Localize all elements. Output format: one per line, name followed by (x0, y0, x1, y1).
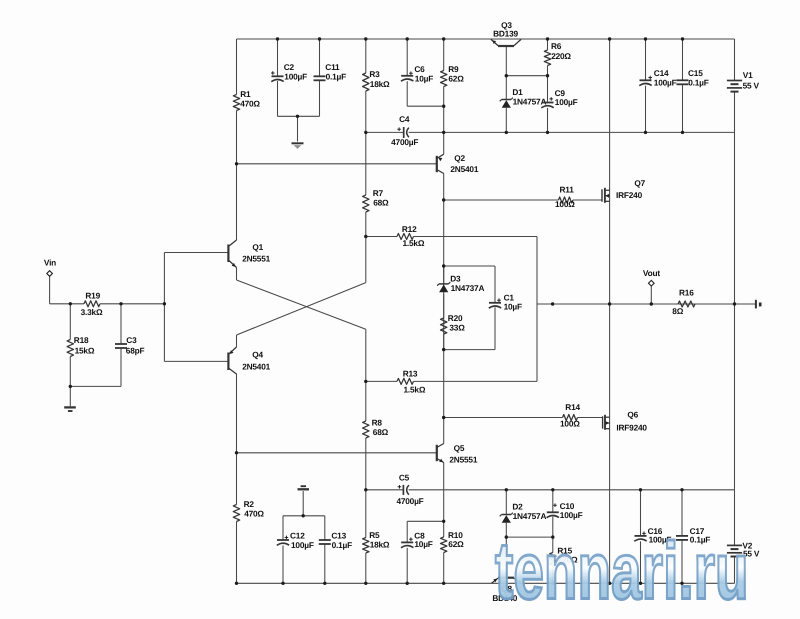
ground C12/C13 (298, 486, 310, 489)
svg-text:100µF: 100µF (560, 510, 583, 520)
svg-text:BD139: BD139 (493, 29, 518, 39)
svg-text:C11: C11 (325, 62, 340, 72)
capacitor C1 (489, 292, 522, 311)
wire R9 leads (443, 39, 445, 132)
wire Q5 emitter to R10 (443, 463, 445, 584)
wire D3 to R20 (443, 266, 445, 350)
svg-text:100µF: 100µF (654, 78, 677, 88)
junction C6/R9 link (442, 105, 445, 108)
wire V1 leads (734, 39, 736, 132)
resistor R7 (363, 188, 389, 212)
junction dots +55V rail (276, 37, 684, 40)
resistor R15 (550, 546, 578, 568)
svg-text:V1: V1 (743, 70, 753, 80)
svg-text:D1: D1 (512, 87, 523, 97)
transistor Q8 BD140 (492, 578, 522, 603)
svg-text:Vin: Vin (44, 257, 56, 267)
capacitor C9 (541, 88, 577, 108)
svg-text:Q5: Q5 (454, 443, 465, 453)
svg-text:100µF: 100µF (284, 72, 307, 82)
junction D2/C10 link (505, 535, 555, 538)
capacitor C11 (314, 62, 347, 82)
capacitor C8 (401, 531, 433, 550)
wire R18 bottom to ground (69, 357, 71, 407)
watermark tennari.ru (495, 524, 749, 618)
wire D3/C1 block top (444, 266, 495, 303)
svg-text:R13: R13 (403, 369, 418, 379)
wire D1 to C9 link (506, 75, 547, 77)
svg-text:4700µF: 4700µF (396, 496, 423, 506)
wire MOSFET column (609, 39, 611, 583)
battery V2 55V (727, 540, 760, 558)
terminal Vout (643, 268, 660, 286)
wire C8 leads (406, 521, 408, 583)
wire C6 to R9 link (407, 105, 444, 107)
wire D2 to C10 link (506, 536, 553, 538)
wire R14 gate drive (444, 417, 603, 419)
svg-text:Q7: Q7 (634, 178, 645, 188)
wire C13 leads (324, 516, 326, 584)
junction R11 tap (442, 198, 445, 201)
junction R12 tap (364, 235, 367, 238)
svg-text:100µF: 100µF (555, 97, 578, 107)
svg-text:R2: R2 (244, 499, 255, 509)
wire mid rail lower (C5 to V2) (366, 489, 735, 491)
wire C15 leads (682, 39, 684, 132)
junction dots output rail (551, 302, 736, 305)
mosfet Q7 IRF240 (602, 178, 646, 203)
resistor R8 (363, 418, 389, 439)
junction D3 block bottom (442, 348, 445, 351)
svg-text:C2: C2 (284, 62, 295, 72)
svg-text:0.1µF: 0.1µF (326, 72, 347, 82)
junction D3 block top (442, 264, 445, 267)
transistor Q2 2N5401 (437, 153, 479, 174)
junction C2/C11 ground tap (296, 115, 299, 118)
wire D2 leads (505, 490, 507, 537)
resistor R9 (441, 64, 465, 87)
node feedback vertical (536, 237, 538, 382)
wire Vin to R19 (50, 276, 84, 304)
wire Q2 emitter stem (443, 132, 445, 154)
resistor R12 (397, 224, 425, 248)
mosfet Q6 IRF9240 (603, 410, 648, 433)
svg-text:18kΩ: 18kΩ (370, 540, 390, 550)
wire Q8 base stem (505, 537, 507, 578)
wire Q4 emitter stem (236, 345, 238, 347)
svg-text:C14: C14 (654, 68, 669, 78)
wire C2 leads (277, 39, 279, 116)
svg-text:15kΩ: 15kΩ (75, 346, 95, 356)
resistor R5 (363, 530, 390, 553)
zener diode D3 1N4737A (437, 274, 484, 294)
junction R13 tap (364, 380, 367, 383)
zener diode D2 1N4757A (500, 502, 547, 523)
svg-text:2N5551: 2N5551 (449, 455, 477, 465)
wire -55V bottom rail (237, 582, 735, 584)
svg-text:Q4: Q4 (252, 350, 263, 360)
svg-text:0.1µF: 0.1µF (688, 78, 709, 88)
resistor R1 (233, 89, 260, 111)
junction R18 ground tap (69, 385, 72, 388)
svg-text:2N5401: 2N5401 (242, 361, 270, 371)
junction Q2 base wire (235, 162, 238, 165)
wire C14 leads (645, 39, 647, 132)
capacitor C12 (277, 531, 314, 551)
resistor R10 (441, 530, 465, 553)
svg-text:R16: R16 (679, 288, 694, 298)
svg-text:R9: R9 (448, 64, 459, 74)
svg-text:10µF: 10µF (504, 302, 522, 312)
svg-text:2N5401: 2N5401 (450, 164, 478, 174)
wire C3 leads (120, 304, 122, 387)
wire C16 leads (640, 490, 642, 584)
resistor R18 (67, 335, 95, 357)
svg-text:Q2: Q2 (454, 153, 465, 163)
wire ladder lower (R8-R5) (365, 381, 367, 583)
wire C8 to R10 link (407, 520, 444, 522)
wire C12 leads (282, 516, 284, 584)
wire Vout stem (650, 286, 652, 304)
wire R19 to node input (100, 303, 164, 305)
svg-text:IRF240: IRF240 (616, 190, 643, 200)
svg-text:1N4737A: 1N4737A (451, 283, 485, 293)
wire left rail upper (R1/Q1 collector) (236, 39, 238, 240)
svg-text:68Ω: 68Ω (373, 198, 389, 208)
wire C2/C11 ground link (278, 116, 320, 141)
transistor Q4 2N5401 (228, 347, 270, 374)
node input bias vertical (163, 253, 165, 362)
wire Q5 base (237, 452, 437, 454)
wire VAS column (Q2 collector to Q5 collector) (443, 174, 445, 444)
svg-text:Vout: Vout (643, 268, 660, 278)
resistor R14 (560, 402, 581, 429)
resistor R20 (441, 313, 466, 334)
svg-text:D2: D2 (512, 502, 523, 512)
wire R12 to feedback loop (366, 236, 537, 238)
svg-text:1.5kΩ: 1.5kΩ (404, 385, 426, 395)
svg-text:R12: R12 (402, 224, 417, 234)
svg-text:100µF: 100µF (291, 540, 314, 550)
wire ladder to Q4 diagonal (237, 237, 366, 346)
svg-text:C12: C12 (290, 531, 305, 541)
svg-text:R1: R1 (240, 89, 251, 99)
svg-text:1.5kΩ: 1.5kΩ (403, 238, 425, 248)
wire R18/C3 bottom link (70, 385, 121, 387)
resistor R19 (81, 291, 103, 317)
svg-text:33Ω: 33Ω (449, 323, 465, 333)
zener diode D1 1N4757A (500, 87, 547, 108)
svg-text:10µF: 10µF (414, 539, 432, 549)
wire left rail lower (Q4 collector/R2) (236, 374, 238, 583)
terminal Vin (44, 257, 56, 276)
junction D1/C9 link (505, 74, 550, 77)
junction dots bottom rail (235, 582, 684, 585)
capacitor C2 (271, 62, 307, 82)
capacitor C14 (639, 68, 676, 88)
svg-text:IRF9240: IRF9240 (616, 422, 647, 432)
capacitor C17 (676, 526, 710, 545)
wire D1 leads (505, 76, 507, 133)
transistor Q3 BD139 (491, 20, 521, 46)
resistor R3 (363, 69, 390, 91)
svg-text:1N4757A: 1N4757A (513, 97, 547, 107)
svg-text:R6: R6 (551, 41, 562, 51)
svg-text:62Ω: 62Ω (448, 74, 464, 84)
capacitor C3 (115, 335, 144, 356)
svg-text:R20: R20 (448, 313, 463, 323)
svg-text:1N4757A: 1N4757A (513, 511, 547, 521)
svg-text:100Ω: 100Ω (555, 199, 575, 209)
svg-text:R18: R18 (74, 335, 89, 345)
wire Q4 base (164, 360, 228, 362)
resistor R6 (544, 41, 571, 66)
junction dots input wire (69, 302, 166, 305)
ground C2/C11 (292, 143, 304, 149)
wire R18 top lead (69, 304, 71, 340)
wire R15 leads (552, 537, 554, 583)
wire C9 leads (547, 76, 549, 133)
svg-text:2N5551: 2N5551 (242, 254, 270, 264)
svg-text:100Ω: 100Ω (560, 419, 580, 429)
svg-text:R14: R14 (565, 402, 580, 412)
junction Q5 base wire (235, 451, 238, 454)
svg-text:R5: R5 (369, 530, 380, 540)
capacitor C10 (547, 501, 583, 520)
svg-text:0.1µF: 0.1µF (332, 540, 353, 550)
resistor R16 (672, 288, 695, 316)
wire Q1 base (164, 252, 228, 254)
svg-text:R8: R8 (372, 418, 383, 428)
svg-text:68pF: 68pF (126, 346, 145, 356)
junction C8/R10 link (442, 520, 445, 523)
wire C11 leads (319, 39, 321, 116)
wire R6 leads (547, 39, 549, 76)
svg-text:D3: D3 (450, 274, 461, 284)
svg-text:470Ω: 470Ω (240, 99, 260, 109)
resistor R11 (555, 185, 575, 210)
svg-text:10µF: 10µF (415, 74, 433, 84)
junction dots mid rail upper (364, 131, 684, 134)
svg-text:220Ω: 220Ω (551, 51, 571, 61)
svg-text:C6: C6 (414, 64, 425, 74)
resistor R13 (397, 369, 426, 395)
ground input (64, 407, 76, 411)
svg-text:C13: C13 (331, 531, 346, 541)
svg-text:55 V: 55 V (743, 80, 760, 90)
svg-text:R3: R3 (369, 69, 380, 79)
transistor Q5 2N5551 (437, 443, 478, 465)
svg-text:R7: R7 (373, 188, 384, 198)
wire Q3 base stem (505, 46, 507, 76)
wire R13 to feedback loop (366, 380, 537, 382)
wire +55V top rail (237, 38, 735, 40)
wire right rail middle segment (734, 132, 736, 489)
svg-text:18kΩ: 18kΩ (370, 79, 390, 89)
svg-text:4700µF: 4700µF (391, 137, 418, 147)
wire Q2 base (237, 163, 437, 165)
capacitor C16 (634, 526, 671, 545)
svg-text:C3: C3 (126, 335, 137, 345)
wire C17 leads (681, 490, 683, 584)
svg-text:R11: R11 (560, 185, 575, 195)
capacitor C4 (391, 114, 418, 147)
svg-text:C15: C15 (688, 68, 703, 78)
resistor R2 (233, 499, 264, 522)
svg-text:Q1: Q1 (252, 242, 263, 252)
wire mid rail upper (C4 to V1) (366, 131, 735, 133)
svg-text:8Ω: 8Ω (672, 306, 683, 316)
wire C10 leads (552, 490, 554, 537)
transistor Q1 2N5551 (228, 240, 270, 268)
capacitor C6 (401, 64, 433, 84)
svg-text:62Ω: 62Ω (448, 539, 464, 549)
svg-text:C4: C4 (399, 114, 410, 124)
terminal output load (756, 300, 762, 309)
svg-text:Q6: Q6 (627, 410, 638, 420)
svg-text:C5: C5 (399, 473, 410, 483)
svg-text:470Ω: 470Ω (244, 509, 264, 519)
svg-text:68Ω: 68Ω (373, 427, 389, 437)
svg-text:3.3kΩ: 3.3kΩ (81, 307, 103, 317)
capacitor C15 (677, 68, 709, 88)
wire output rail (537, 303, 756, 305)
junction C12/C13 ground tap (302, 514, 305, 517)
svg-text:R19: R19 (85, 291, 100, 301)
wire C12/C13 top link (283, 491, 325, 516)
junction R14 tap (442, 416, 445, 419)
junction dots mid rail lower (364, 488, 684, 491)
battery V1 55V (727, 70, 760, 92)
capacitor C13 (319, 531, 352, 551)
wire Q1 emitter diagonal to R13 node (237, 268, 366, 382)
wire C6 leads (406, 39, 408, 106)
wire D3/C1 block bottom (444, 307, 495, 349)
wire V2 leads (734, 490, 736, 584)
capacitor C5 (396, 473, 423, 507)
wire R11 gate drive (444, 199, 602, 201)
wire ladder upper (R3-C4-R7) (365, 39, 367, 237)
